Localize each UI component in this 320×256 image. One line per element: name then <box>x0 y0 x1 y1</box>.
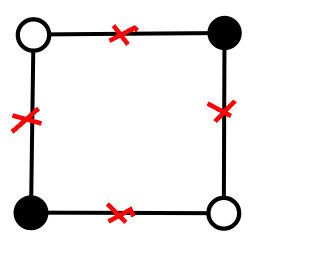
X mark top edge <box>110 26 138 45</box>
wire top edge <box>34 33 225 35</box>
node bottom-right (open circle) <box>208 198 239 229</box>
X mark bottom edge <box>108 204 134 223</box>
node bottom-left (filled circle) <box>14 195 49 230</box>
X mark right edge <box>208 101 236 122</box>
X mark left edge <box>12 109 42 133</box>
node top-left (open circle) <box>18 19 49 50</box>
wire bottom edge <box>31 211 224 216</box>
node top-right (filled circle) <box>207 16 241 50</box>
wire right edge <box>222 33 227 213</box>
wire left edge <box>31 35 34 213</box>
